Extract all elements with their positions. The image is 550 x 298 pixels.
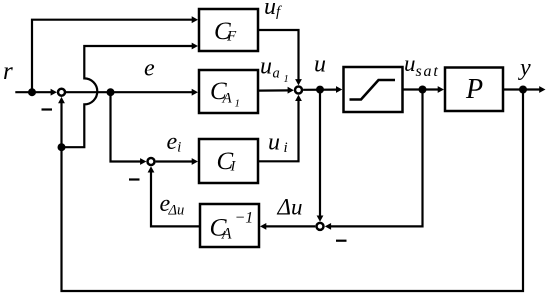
- wire saturation output to P: [403, 88, 440, 90]
- wire r input: [15, 91, 52, 93]
- svg-text:A: A: [221, 226, 232, 243]
- node E (y branch): [519, 86, 527, 94]
- wire S4 output (delta u) to C_A inverse: [265, 225, 315, 227]
- svg-text:F: F: [226, 29, 237, 45]
- arrowhead into S3 from left: [288, 87, 294, 94]
- node D (u_sat branch): [419, 86, 427, 94]
- arrowhead into saturation: [336, 86, 342, 93]
- svg-text:−1: −1: [235, 210, 254, 227]
- wire node A up and across to C_F first input: [32, 20, 194, 93]
- wire y feedback: down from node E, along bottom, up to S1: [62, 90, 524, 292]
- node B (branch of e): [107, 88, 115, 96]
- arrowhead into S2 from left: [140, 158, 146, 165]
- svg-text:u: u: [314, 52, 326, 78]
- arrowhead into C_I: [192, 158, 198, 165]
- svg-text:r: r: [3, 58, 13, 85]
- svg-text:u: u: [268, 130, 280, 156]
- arrowhead into C_F input 2: [192, 43, 198, 50]
- summing junction S2: [148, 158, 155, 165]
- wire C_A1 output to S3: [258, 89, 290, 91]
- saturation curve: [350, 80, 396, 100]
- svg-text:P: P: [465, 74, 483, 105]
- summing junction S1: [58, 89, 65, 96]
- block C_F: [199, 9, 258, 51]
- svg-text:1: 1: [284, 74, 289, 85]
- arrowhead down into S3: [295, 79, 302, 85]
- svg-text:Δu: Δu: [277, 194, 303, 219]
- arrowhead into P: [438, 86, 444, 93]
- svg-text:f: f: [276, 4, 282, 20]
- output arrowhead y: [539, 86, 545, 93]
- arrowhead into C_A inverse right side: [260, 223, 266, 230]
- wire S2 to C_I: [156, 160, 194, 162]
- minus sign at S1: [42, 108, 53, 110]
- arrowhead into C_A1: [192, 89, 198, 96]
- wire C_I output to S3: [258, 99, 299, 161]
- svg-text:u: u: [264, 0, 276, 20]
- svg-text:u: u: [260, 54, 272, 80]
- svg-text:i: i: [284, 140, 288, 156]
- wire e branch down from node B to S2: [111, 92, 143, 161]
- svg-text:sat: sat: [416, 63, 440, 80]
- arrowhead down into S4: [317, 216, 324, 222]
- wire u_sat down from node D to S4: [330, 90, 423, 227]
- arrowhead into C_F input 1: [192, 16, 198, 23]
- svg-text:y: y: [518, 55, 531, 81]
- minus sign at S2: [129, 178, 140, 180]
- arrowhead into summing junction S1: [51, 89, 57, 96]
- wire node F to C_F second input (with hop over e line): [62, 46, 194, 147]
- svg-text:1: 1: [235, 98, 241, 110]
- wire e (S1 output to C_A1): [66, 91, 194, 93]
- saturation block: [344, 67, 403, 112]
- node A (branch of r): [28, 88, 36, 96]
- arrowhead up into S2: [148, 166, 155, 172]
- svg-text:A: A: [222, 91, 233, 107]
- block P: [445, 68, 503, 112]
- svg-text:a: a: [273, 66, 280, 82]
- wire C_A inverse output to S2: [151, 171, 200, 226]
- block C_I: [199, 139, 258, 183]
- svg-text:e: e: [144, 56, 155, 82]
- arrowhead into S4 from right: [325, 223, 331, 230]
- svg-text:u: u: [404, 51, 416, 76]
- wire P output to edge: [503, 88, 541, 90]
- svg-text:ei: ei: [167, 129, 182, 156]
- minus sign at S4: [336, 240, 347, 242]
- svg-text:Δu: Δu: [168, 203, 185, 219]
- summing junction S4: [317, 223, 324, 230]
- block C_A inverse: [200, 204, 259, 247]
- summing junction S3: [295, 87, 302, 94]
- arrowhead up into S3: [295, 95, 302, 101]
- wire S3 output (u) to saturation block: [303, 88, 337, 90]
- wire u down from node C to S4: [319, 90, 321, 218]
- node C (u branch): [316, 86, 324, 94]
- block C_A1: [199, 70, 258, 113]
- arrowhead up into S1: [58, 97, 65, 103]
- wire C_F output to S3: [258, 30, 299, 81]
- node F (feedback branch to C_F): [58, 143, 66, 151]
